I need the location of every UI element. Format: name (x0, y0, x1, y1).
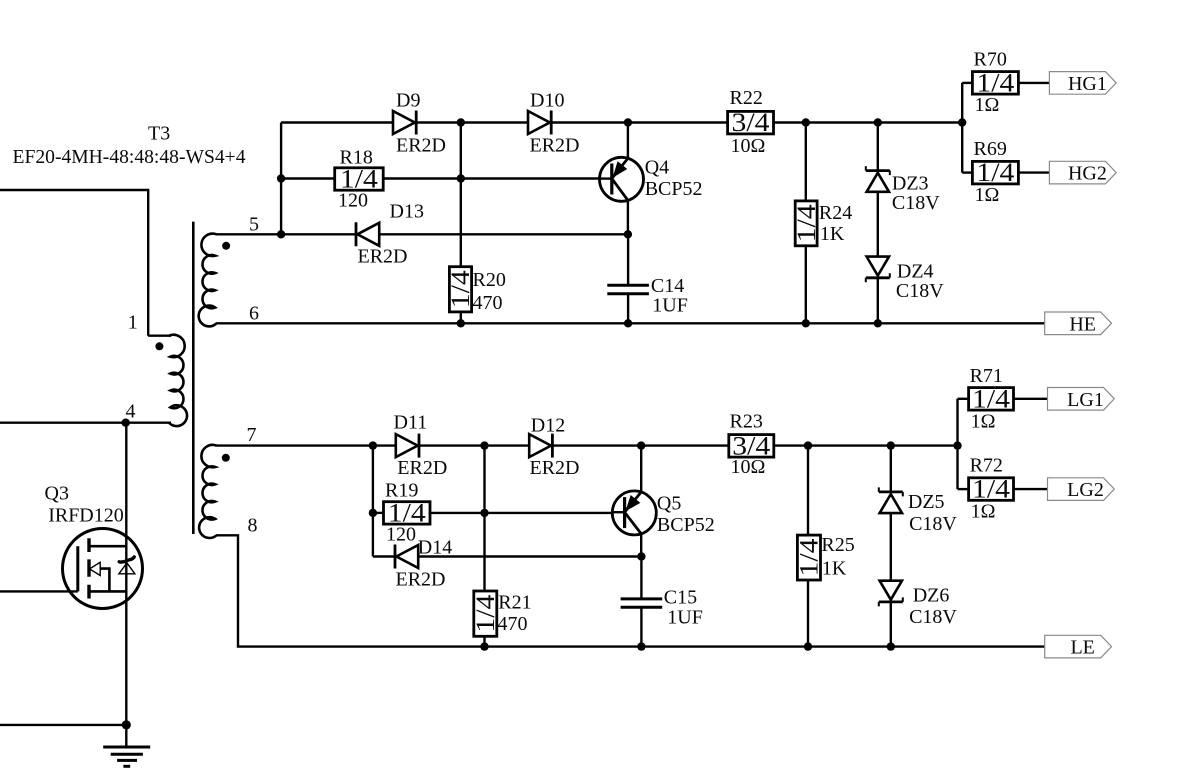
svg-text:1Ω: 1Ω (971, 501, 996, 523)
svg-text:D13: D13 (390, 201, 424, 223)
svg-text:1K: 1K (820, 223, 845, 245)
svg-text:R24: R24 (819, 202, 852, 224)
svg-text:ER2D: ER2D (530, 134, 580, 156)
svg-text:R21: R21 (498, 591, 531, 613)
svg-text:C15: C15 (664, 587, 697, 609)
svg-text:ER2D: ER2D (396, 569, 446, 591)
svg-text:120: 120 (386, 523, 416, 545)
svg-text:1: 1 (128, 312, 138, 334)
svg-text:10Ω: 10Ω (731, 135, 766, 157)
svg-text:HG1: HG1 (1068, 73, 1107, 95)
svg-text:ER2D: ER2D (530, 457, 580, 479)
svg-text:D11: D11 (394, 411, 428, 433)
svg-text:LG2: LG2 (1067, 479, 1104, 501)
svg-text:R70: R70 (974, 49, 1007, 71)
svg-text:Q4: Q4 (645, 157, 669, 179)
svg-text:R18: R18 (340, 146, 373, 168)
svg-text:1Ω: 1Ω (971, 411, 996, 433)
svg-text:C18V: C18V (909, 513, 957, 535)
svg-text:1Ω: 1Ω (975, 94, 1000, 116)
svg-text:1UF: 1UF (652, 294, 688, 316)
svg-text:10Ω: 10Ω (731, 456, 766, 478)
svg-text:1K: 1K (822, 557, 847, 579)
svg-text:ER2D: ER2D (358, 246, 408, 268)
svg-text:R22: R22 (730, 87, 763, 109)
svg-text:120: 120 (338, 190, 368, 212)
svg-text:LG1: LG1 (1067, 389, 1104, 411)
svg-text:Q5: Q5 (657, 493, 681, 515)
svg-text:1Ω: 1Ω (975, 184, 1000, 206)
svg-text:Q3: Q3 (45, 483, 69, 505)
svg-text:470: 470 (473, 292, 503, 314)
svg-text:3/4: 3/4 (732, 108, 770, 137)
svg-text:R72: R72 (970, 455, 1003, 477)
svg-text:HE: HE (1069, 313, 1096, 335)
svg-text:5: 5 (249, 214, 259, 236)
svg-text:BCP52: BCP52 (657, 514, 715, 536)
svg-text:R20: R20 (473, 269, 506, 291)
svg-text:D9: D9 (396, 90, 420, 112)
svg-text:EF20-4MH-48:48:48-WS4+4: EF20-4MH-48:48:48-WS4+4 (13, 146, 246, 168)
svg-text:DZ5: DZ5 (908, 491, 945, 513)
svg-text:8: 8 (248, 515, 258, 537)
svg-text:7: 7 (247, 424, 257, 446)
svg-text:HG2: HG2 (1068, 163, 1107, 185)
svg-text:LE: LE (1070, 637, 1094, 659)
svg-text:DZ6: DZ6 (913, 584, 950, 606)
svg-text:1/4: 1/4 (446, 270, 475, 308)
svg-text:1/4: 1/4 (972, 475, 1010, 504)
svg-text:T3: T3 (148, 122, 170, 144)
svg-text:1/4: 1/4 (471, 595, 500, 633)
svg-text:1/4: 1/4 (795, 539, 824, 577)
svg-text:ER2D: ER2D (397, 457, 447, 479)
svg-text:4: 4 (126, 401, 136, 423)
svg-text:C18V: C18V (892, 192, 940, 214)
svg-text:1UF: 1UF (667, 606, 703, 628)
svg-text:470: 470 (498, 613, 528, 635)
svg-text:C18V: C18V (896, 280, 944, 302)
svg-text:R71: R71 (970, 365, 1003, 387)
svg-text:1/4: 1/4 (972, 385, 1010, 414)
svg-text:C18V: C18V (909, 606, 957, 628)
svg-text:R69: R69 (974, 138, 1007, 160)
svg-text:BCP52: BCP52 (645, 178, 703, 200)
svg-text:D14: D14 (418, 536, 452, 558)
svg-text:1/4: 1/4 (976, 68, 1014, 97)
svg-text:6: 6 (249, 302, 259, 324)
svg-text:R25: R25 (821, 534, 854, 556)
svg-text:R23: R23 (730, 410, 763, 432)
svg-text:R19: R19 (385, 479, 418, 501)
svg-text:1/4: 1/4 (792, 204, 821, 242)
svg-text:D10: D10 (530, 90, 564, 112)
svg-text:D12: D12 (531, 415, 565, 437)
svg-text:IRFD120: IRFD120 (48, 504, 124, 526)
svg-text:ER2D: ER2D (396, 134, 446, 156)
